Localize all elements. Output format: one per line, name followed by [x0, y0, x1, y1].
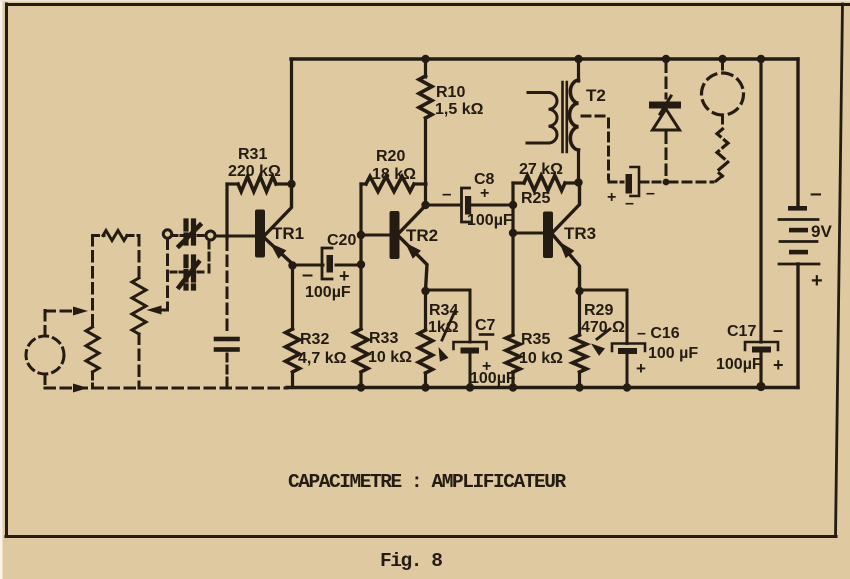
svg-text:9V: 9V [811, 222, 832, 241]
svg-text:C7: C7 [475, 317, 496, 334]
svg-text:27 kΩ: 27 kΩ [519, 161, 563, 178]
arrow signal in (bottom) [73, 384, 88, 393]
node rail/R10 [421, 55, 429, 63]
node R35 bottom [509, 383, 517, 391]
capacitor Cx2 (measured, variable, dashed) [183, 257, 188, 288]
wire bottom rail (solid part) [287, 386, 798, 389]
svg-text:10 kΩ: 10 kΩ [368, 349, 412, 366]
svg-text:1kΩ: 1kΩ [428, 319, 459, 336]
potentiometer (dashed branch 2) [138, 236, 141, 280]
meter M (dashed circle) [702, 73, 744, 115]
node R34 bottom [421, 383, 429, 391]
node C8/base line [509, 201, 517, 209]
resistor R32 4.7k [291, 266, 294, 330]
svg-text:100µF: 100µF [305, 284, 351, 301]
svg-text:Fig. 8: Fig. 8 [380, 550, 442, 572]
wire rail to battery [796, 59, 799, 206]
wire rail left drop [290, 59, 293, 184]
capacitor C8 100uF [462, 188, 470, 222]
capacitor Cx1 (measured, variable, dashed) [183, 221, 188, 249]
node rail/C17 [757, 55, 765, 63]
svg-text:R35: R35 [521, 331, 550, 348]
transformer T2 core [561, 82, 564, 152]
node rail/T2 [574, 55, 582, 63]
wire node base down (dashed) [226, 240, 229, 336]
(frame lines, decorative) [7, 3, 850, 6]
svg-text:–: – [625, 195, 634, 212]
wire collector to C8 [426, 204, 460, 207]
terminal B (right binding post) [206, 231, 215, 240]
wire T2 tap (dashed) [582, 115, 608, 118]
node base line/TR3 [509, 229, 517, 237]
resistor R25 27k [513, 181, 524, 184]
svg-text:+: + [480, 185, 489, 202]
node C17 bottom [756, 382, 765, 391]
svg-text:R10: R10 [436, 84, 465, 101]
transformer T2 secondary [528, 91, 549, 94]
svg-text:–: – [442, 184, 451, 203]
wire top supply rail [291, 57, 798, 60]
svg-text:–: – [646, 185, 655, 202]
wire TR2 base line [359, 184, 362, 329]
wire Cx2 to terminal B [198, 271, 206, 274]
node TR3 emitter [575, 287, 583, 295]
node C20/base line [357, 260, 365, 268]
wire cap to diode (dashed) [641, 181, 663, 184]
svg-text:C20: C20 [327, 232, 356, 249]
wire emitter to C20 [293, 264, 324, 267]
arrow R34 wiper [442, 311, 455, 340]
svg-text:+: + [811, 270, 823, 292]
transformer T2 primary [577, 59, 580, 81]
wire emitter to C16 [580, 289, 628, 292]
svg-text:– C16: – C16 [637, 325, 680, 342]
svg-text:10 kΩ: 10 kΩ [519, 350, 563, 367]
generator G (signal source, dashed) [26, 336, 64, 374]
svg-text:R31: R31 [238, 146, 267, 163]
node rail/meter [718, 55, 726, 63]
svg-text:R32: R32 [300, 331, 329, 348]
capacitor C7 100uF [454, 342, 487, 349]
wire terminal B to TR1 base [215, 235, 256, 238]
wire to Cx2 left [171, 271, 182, 274]
resistor R33 10k [354, 329, 368, 372]
wire diode down (dashed) [665, 133, 668, 180]
resistor (probe shunt, dashed branch 1) [91, 236, 94, 329]
resistor R35 10k [506, 335, 520, 372]
terminal A (left binding post) [163, 230, 171, 238]
transistor TR3 (PNP) [513, 232, 543, 235]
svg-text:+: + [636, 359, 646, 378]
transistor TR2 (PNP) [361, 234, 390, 237]
resistor (meter series, dashed branch) [721, 116, 724, 127]
svg-text:CAPACIMETRE : AMPLIFICATEUR: CAPACIMETRE : AMPLIFICATEUR [288, 471, 567, 493]
wire rail to diode (dashed) [665, 62, 668, 98]
wire Cx1 to terminal B [198, 234, 205, 237]
resistor R34 1k (adjustable) [424, 291, 427, 330]
svg-text:R34: R34 [429, 302, 458, 319]
resistor (series, top, dashed) [93, 234, 105, 237]
svg-text:1,5 kΩ: 1,5 kΩ [435, 101, 484, 118]
svg-text:C17: C17 [727, 323, 756, 340]
svg-text:R29: R29 [584, 302, 613, 319]
(scan edge, decorative) [0, 0, 3, 579]
arrow R29 wiper [597, 329, 610, 339]
node TR2 collector [421, 201, 429, 209]
resistor R29 470 (adjustable) [578, 291, 581, 335]
diode D (zener, detector) [649, 102, 681, 109]
wire rail to C17 [759, 59, 762, 342]
capacitor C16 100uF [612, 344, 645, 352]
node R29 bottom [575, 383, 583, 391]
svg-text:+: + [607, 189, 616, 206]
resistor R20 18k [361, 182, 366, 185]
node rail/diode [662, 55, 670, 63]
svg-text:100 µF: 100 µF [648, 345, 698, 362]
wire generator bottom [44, 374, 47, 388]
svg-text:TR3: TR3 [564, 224, 596, 243]
capacitor C17 100uF [745, 342, 778, 350]
svg-text:–: – [810, 182, 822, 205]
svg-text:T2: T2 [586, 86, 606, 105]
arrow signal in (top) [73, 307, 88, 316]
wire pot wiper [166, 239, 169, 309]
svg-text:–: – [302, 264, 313, 286]
node R31/collector [287, 180, 295, 188]
capacitor C20 100uF [322, 248, 332, 279]
svg-text:R25: R25 [521, 190, 550, 207]
svg-text:100µF: 100µF [467, 212, 513, 229]
svg-text:100µF: 100µF [470, 370, 516, 387]
svg-text:R20: R20 [376, 148, 405, 165]
wire rail to meter (dashed) [721, 62, 724, 73]
wire emitter to C7 [426, 289, 471, 292]
wire detector line (dashed) [669, 181, 713, 184]
wire C8 to TR3 base line [470, 204, 513, 207]
node diode/detector line [663, 179, 670, 186]
wire bottom rail dashed [45, 387, 287, 390]
node C16 bottom [623, 383, 631, 391]
node TR1 emitter [288, 261, 296, 269]
svg-text:+: + [339, 266, 350, 286]
svg-text:100µF: 100µF [716, 356, 762, 373]
wire battery to bottom rail [796, 264, 799, 388]
resistor R10 1.5k [424, 59, 427, 77]
wire generator top [44, 309, 47, 336]
svg-text:18 kΩ: 18 kΩ [372, 166, 416, 183]
svg-text:+: + [773, 355, 784, 375]
node TR2 emitter [421, 287, 429, 295]
wire C20 to base node [336, 264, 361, 267]
svg-text:–: – [773, 320, 783, 340]
wire TR3 base line [511, 183, 514, 335]
wire terminal A to Cx1 [172, 234, 182, 237]
transistor TR1 (PNP) [255, 210, 265, 258]
svg-text:4,7 kΩ: 4,7 kΩ [298, 350, 347, 367]
svg-text:470 Ω: 470 Ω [581, 319, 625, 336]
capacitor (input shunt, dashed) [216, 337, 226, 342]
capacitor (detector, dashed leads) [626, 174, 633, 194]
svg-text:TR2: TR2 [406, 226, 438, 245]
battery 9V [788, 206, 807, 211]
resistor R31 220k [276, 182, 292, 185]
node C7 bottom [466, 383, 474, 391]
node R33 bottom [357, 383, 365, 391]
svg-text:220 kΩ: 220 kΩ [228, 163, 281, 180]
node base/R20 [357, 231, 365, 239]
arrow pot wiper [147, 306, 162, 315]
svg-text:R33: R33 [369, 330, 398, 347]
svg-text:TR1: TR1 [272, 224, 304, 243]
node R25/collector [574, 178, 582, 186]
